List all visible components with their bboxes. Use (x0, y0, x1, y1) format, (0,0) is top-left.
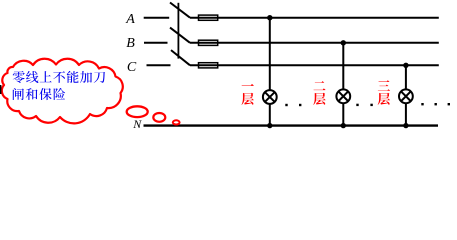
wire drop from phase C to lamp 3 (405, 65, 407, 125)
node junction on phase C (403, 63, 408, 68)
svg-text:B: B (126, 36, 135, 51)
wire C bus (190, 64, 439, 66)
cloud tail bubble 2 (153, 113, 165, 122)
wire drop from phase A to lamp 1 (269, 18, 271, 126)
node junction on neutral at lamp 3 (403, 123, 408, 128)
node junction on phase A (267, 15, 272, 20)
node junction on neutral at lamp 2 (341, 123, 346, 128)
fuse FU2 (199, 40, 218, 45)
knife switch blade B (170, 28, 190, 43)
wire C incoming stub (147, 64, 171, 66)
fuse FU1 (199, 15, 218, 20)
thought cloud callout (2, 59, 123, 124)
annotation text line 2: 闸和保险 (13, 88, 65, 100)
floor label 二层 (floor 2) (313, 81, 325, 105)
lamp EL3 (399, 89, 413, 103)
cloud tail bubble 1 (127, 106, 148, 117)
fuse FU3 (199, 63, 218, 68)
knife switch blade A (170, 3, 190, 18)
neutral line N (144, 124, 439, 126)
node junction on neutral at lamp 1 (267, 123, 272, 128)
knife switch blade C (171, 50, 190, 65)
svg-text:C: C (127, 60, 137, 75)
lamp EL1 (263, 90, 277, 104)
svg-text:A: A (125, 12, 135, 27)
node junction on phase B (341, 40, 346, 45)
wire B incoming stub (144, 42, 168, 44)
wire A incoming stub (144, 17, 170, 19)
knife switch linkage bar (177, 3, 179, 59)
ellipsis dots after lamp 3 (421, 103, 450, 105)
lamp EL2 (336, 89, 350, 103)
wire B bus (190, 42, 439, 44)
ellipsis dots after lamp 2 (356, 104, 373, 106)
stray black mark at left edge (0, 85, 1, 94)
annotation text line 1: 零线上不能加刀 (13, 71, 105, 83)
ellipsis dots after lamp 1 (285, 104, 301, 106)
wire A bus (190, 17, 439, 19)
floor label 三层 (floor 3) (378, 80, 390, 105)
cloud tail bubble 3 (173, 120, 180, 124)
svg-text:N: N (132, 117, 142, 131)
floor label 一层 (floor 1) (241, 84, 253, 105)
wire drop from phase B to lamp 2 (342, 43, 344, 126)
